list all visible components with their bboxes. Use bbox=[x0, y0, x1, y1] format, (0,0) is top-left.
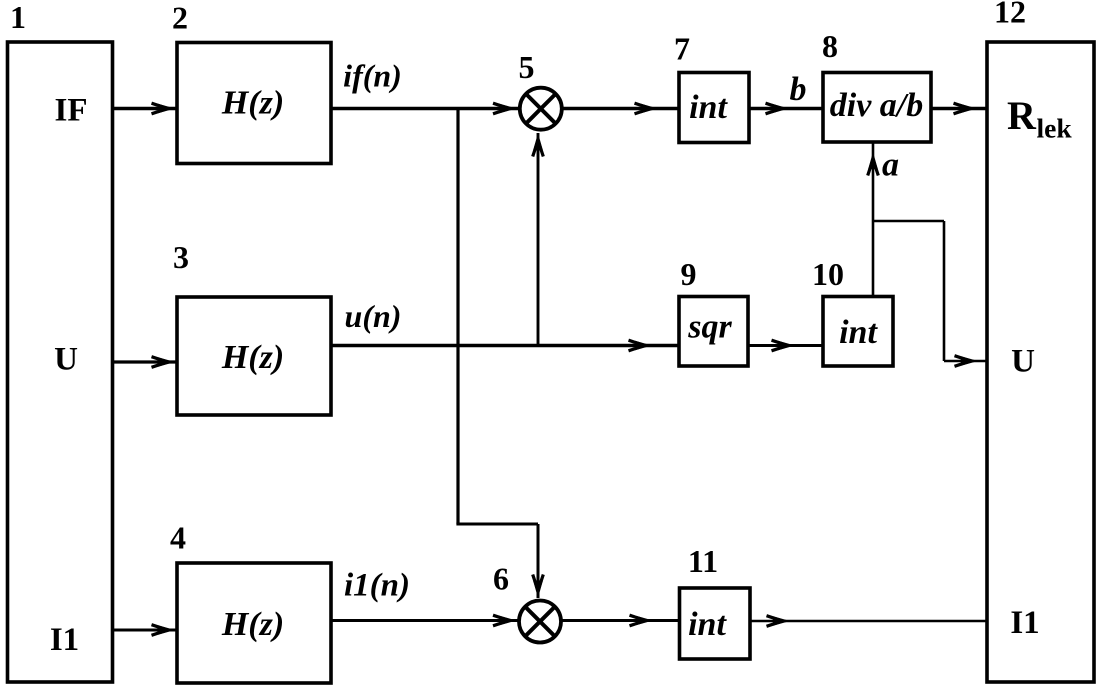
text int block 7 bbox=[689, 89, 728, 126]
svg-text:R: R bbox=[1007, 93, 1037, 138]
block 8 div a/b bbox=[823, 73, 931, 143]
svg-text:1: 1 bbox=[10, 0, 26, 35]
svg-text:6: 6 bbox=[493, 561, 509, 597]
svg-text:I1: I1 bbox=[1010, 605, 1039, 641]
text H(z) block 3 bbox=[221, 339, 284, 376]
text div a/b bbox=[830, 87, 923, 124]
port label I1 (block 12) bbox=[1010, 605, 1039, 641]
block 2 H(z) filter bbox=[177, 43, 331, 164]
svg-text:8: 8 bbox=[822, 28, 838, 64]
block 4 H(z) filter bbox=[177, 563, 331, 683]
signal label a bbox=[882, 147, 899, 184]
wire block 8 to block 12 bbox=[931, 103, 986, 114]
svg-text:b: b bbox=[790, 71, 807, 108]
signal label u(n) bbox=[345, 298, 402, 334]
label 8 bbox=[822, 28, 838, 64]
block 10 int bbox=[823, 297, 893, 367]
svg-text:if(n): if(n) bbox=[343, 58, 402, 94]
svg-text:int: int bbox=[689, 89, 728, 126]
svg-text:H(z): H(z) bbox=[221, 606, 284, 643]
text int block 11 bbox=[688, 606, 727, 643]
svg-text:H(z): H(z) bbox=[221, 85, 284, 122]
wire if(n) block2 to multiplier 5 bbox=[331, 103, 518, 114]
wire U to block 3 bbox=[112, 357, 176, 368]
wire multiplier 6 to block 11 bbox=[561, 615, 678, 626]
multiplier 6 bbox=[519, 601, 561, 643]
svg-text:int: int bbox=[839, 314, 878, 351]
svg-text:9: 9 bbox=[681, 256, 697, 292]
label 4 bbox=[170, 520, 186, 556]
label 12 bbox=[994, 0, 1026, 30]
node branch if(n) bbox=[456, 109, 459, 525]
svg-text:int: int bbox=[688, 606, 727, 643]
block 3 H(z) filter bbox=[177, 297, 331, 415]
svg-text:5: 5 bbox=[519, 49, 535, 85]
label 9 bbox=[681, 256, 697, 292]
label 2 bbox=[172, 0, 188, 36]
label 10 bbox=[812, 256, 844, 292]
svg-text:3: 3 bbox=[173, 239, 189, 275]
block 1 input interface box bbox=[8, 42, 113, 682]
wire u(n) branch up to multiplier 5 bbox=[533, 133, 544, 346]
label 7 bbox=[674, 31, 690, 67]
svg-text:H(z): H(z) bbox=[221, 339, 284, 376]
svg-text:div a/b: div a/b bbox=[830, 87, 923, 124]
label 6 bbox=[493, 561, 509, 597]
wire block 11 to block 12 I1 bbox=[750, 616, 986, 627]
port label IF bbox=[55, 93, 88, 129]
label 1 bbox=[10, 0, 26, 35]
wire multiplier 5 to block 7 bbox=[562, 103, 678, 114]
svg-text:IF: IF bbox=[55, 93, 88, 129]
svg-text:sqr: sqr bbox=[687, 309, 732, 346]
block 7 int bbox=[679, 73, 749, 143]
label 11 bbox=[688, 543, 718, 579]
svg-text:i1(n): i1(n) bbox=[344, 568, 410, 604]
wire IF to block 2 bbox=[112, 103, 176, 114]
port label U (block 12) bbox=[1011, 344, 1035, 380]
wire if(n) branch to multiplier 6 bbox=[456, 524, 543, 598]
wire branch a to block 12 U input bbox=[873, 221, 986, 366]
text H(z) block 2 bbox=[221, 85, 284, 122]
wire u(n) block 3 to block 9 bbox=[331, 340, 678, 351]
svg-text:u(n): u(n) bbox=[345, 298, 402, 334]
signal label i1(n) bbox=[344, 568, 410, 604]
wire block 7 to block 8 bbox=[749, 103, 822, 114]
wire i1(n) block 4 to multiplier 6 bbox=[331, 615, 518, 626]
signal label if(n) bbox=[343, 58, 402, 94]
signal label b bbox=[790, 71, 807, 108]
svg-text:I1: I1 bbox=[50, 622, 79, 658]
wire block 9 to block 10 bbox=[748, 340, 822, 351]
svg-text:lek: lek bbox=[1037, 113, 1073, 144]
label 3 bbox=[173, 239, 189, 275]
svg-text:a: a bbox=[882, 147, 899, 184]
multiplier 5 bbox=[520, 88, 562, 130]
text H(z) block 4 bbox=[221, 606, 284, 643]
port label I1 (block 1) bbox=[50, 622, 79, 658]
svg-text:11: 11 bbox=[688, 543, 718, 579]
svg-text:4: 4 bbox=[170, 520, 186, 556]
svg-text:U: U bbox=[1011, 344, 1035, 380]
text sqr bbox=[687, 309, 732, 346]
svg-text:10: 10 bbox=[812, 256, 844, 292]
text int block 10 bbox=[839, 314, 878, 351]
wire I1 to block 4 bbox=[112, 625, 176, 636]
svg-text:7: 7 bbox=[674, 31, 690, 67]
port label U (block 1) bbox=[54, 342, 78, 378]
block 9 sqr bbox=[679, 297, 748, 367]
svg-text:12: 12 bbox=[994, 0, 1026, 30]
svg-text:2: 2 bbox=[172, 0, 188, 36]
block 12 output interface box bbox=[987, 42, 1094, 682]
label 5 bbox=[519, 49, 535, 85]
wire block 10 up to block 8 a input bbox=[868, 143, 879, 296]
port label R lek bbox=[1007, 93, 1072, 144]
svg-text:U: U bbox=[54, 342, 78, 378]
block 11 int bbox=[680, 588, 751, 659]
